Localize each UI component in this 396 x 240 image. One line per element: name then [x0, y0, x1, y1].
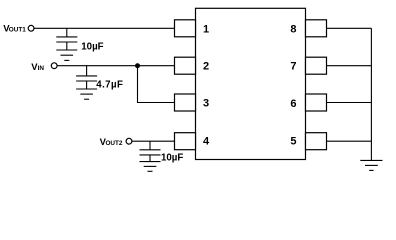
svg-text:2: 2: [203, 61, 209, 73]
ground right bus: [360, 160, 382, 170]
svg-text:10µF: 10µF: [161, 153, 183, 164]
wire pin 5 to right bus: [327, 140, 372, 142]
capacitor C1 10uF: [56, 28, 77, 42]
ground below C2: [76, 81, 97, 99]
wire pin 7 to right bus: [327, 65, 372, 67]
svg-text:5: 5: [290, 136, 296, 148]
terminal VOUT1: [28, 25, 34, 31]
pin 4 pad: [175, 133, 196, 150]
svg-text:8: 8: [290, 23, 296, 35]
wire right bus vertical: [370, 28, 372, 160]
svg-text:6: 6: [290, 98, 296, 110]
pin 7 pad: [306, 57, 327, 74]
junction dot on VIN net: [135, 63, 140, 68]
capacitor C3 10uF: [140, 141, 161, 155]
pin 1 pad: [175, 20, 196, 37]
pin 5 pad: [306, 133, 327, 150]
wire pin 6 to right bus: [327, 102, 372, 104]
svg-text:7: 7: [290, 61, 296, 73]
svg-text:1: 1: [203, 23, 209, 35]
svg-text:4: 4: [203, 136, 210, 148]
wire VOUT1 to pin 1: [35, 27, 176, 29]
ground below C3: [140, 155, 161, 171]
ground below C1: [56, 42, 77, 60]
pin 8 pad: [306, 20, 327, 37]
pin 3 pad: [175, 94, 196, 111]
svg-text:10µF: 10µF: [81, 42, 103, 53]
IC U1 body: [196, 8, 306, 159]
terminal VIN: [51, 63, 57, 69]
terminal VOUT2: [126, 138, 132, 144]
capacitor C2 4.7uF: [76, 66, 97, 81]
wire pin 8 to right bus: [327, 27, 372, 29]
svg-text:4.7µF: 4.7µF: [96, 79, 123, 90]
svg-text:3: 3: [203, 98, 209, 110]
pin 2 pad: [175, 57, 196, 74]
pin 6 pad: [306, 94, 327, 111]
wire VOUT2 to pin 4: [132, 140, 175, 142]
wire VIN to pin 2: [58, 65, 175, 67]
wire VIN junction down to pin 3: [138, 66, 176, 103]
